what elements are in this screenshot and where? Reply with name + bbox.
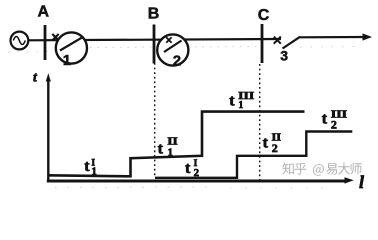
svg-text:2: 2 [272,141,278,155]
svg-text:t: t [185,160,191,177]
svg-text:t: t [322,111,328,128]
svg-text:l: l [359,172,364,191]
svg-text:2: 2 [173,53,181,70]
svg-text:2: 2 [331,117,337,131]
svg-text:A: A [38,4,50,21]
svg-text:t: t [158,141,164,158]
svg-text:t: t [84,158,90,175]
svg-text:3: 3 [280,47,288,63]
svg-text:2: 2 [194,167,200,179]
svg-text:t: t [263,135,269,152]
svg-text:C: C [258,7,270,24]
svg-text:1: 1 [63,52,71,69]
svg-text:B: B [148,5,160,22]
svg-text:1: 1 [168,146,174,158]
svg-text:1: 1 [238,100,243,111]
svg-text:t: t [33,71,38,86]
svg-text:1: 1 [91,165,97,177]
svg-text:t: t [229,93,235,110]
